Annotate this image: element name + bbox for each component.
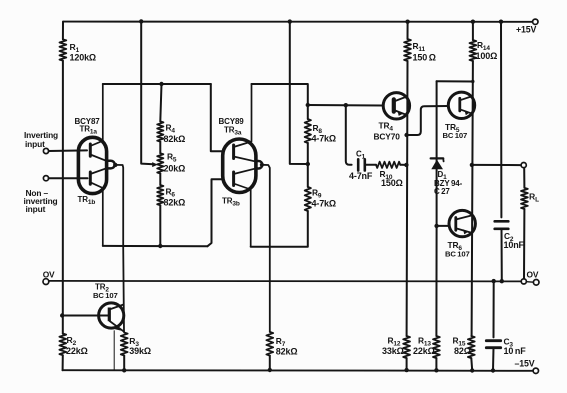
terminal 0V right B xyxy=(533,280,539,286)
wire R7 to rail xyxy=(269,356,271,370)
transistor TR3a base bar xyxy=(232,145,235,159)
label TR3b xyxy=(222,197,240,208)
label R2 xyxy=(67,335,77,347)
terminal non-inverting input xyxy=(43,176,48,181)
node R8 R9 junction xyxy=(306,162,310,166)
label R2 value xyxy=(66,346,88,356)
node R7 bottom xyxy=(268,368,272,372)
capacitor C2 xyxy=(495,221,509,229)
svg-text:BC 107: BC 107 xyxy=(93,291,118,300)
node R13 bottom xyxy=(434,368,438,372)
wire non-inverting input to TR1b base xyxy=(49,177,88,179)
wire R5-R6 xyxy=(159,174,161,186)
wire TR2 base xyxy=(62,315,107,317)
transistor TR5 collector xyxy=(460,96,473,100)
label R4 xyxy=(166,123,176,135)
svg-text:20kΩ: 20kΩ xyxy=(164,164,186,174)
transistor TR4 xyxy=(383,93,409,119)
terminal 0V left xyxy=(43,279,49,285)
svg-text:82kΩ: 82kΩ xyxy=(164,198,186,208)
transistor TR3b collector xyxy=(234,184,251,247)
wire RL bottom lead xyxy=(523,209,525,279)
transistor TR6 emitter xyxy=(456,228,472,233)
wire D1 vertical xyxy=(436,81,438,226)
label TR6 type xyxy=(445,250,470,259)
wire rail to C2 xyxy=(500,22,502,218)
svg-text:22kΩ: 22kΩ xyxy=(413,346,435,356)
label RL xyxy=(529,192,539,204)
wire TR1a collector rail xyxy=(103,83,211,85)
wire D1 to R13 xyxy=(435,226,437,336)
resistor R5 xyxy=(157,153,163,173)
diode D1 xyxy=(431,158,444,169)
label C3 xyxy=(504,337,514,349)
transistor TR1b emitter xyxy=(90,168,106,174)
wire R2 to -15V rail xyxy=(62,355,64,370)
resistor R7 xyxy=(266,332,273,356)
wire R10 to TR4 node xyxy=(400,164,406,166)
node TR3 emitter bump xyxy=(255,161,264,169)
node TR6 base junction xyxy=(434,224,438,228)
label R3 value xyxy=(129,346,151,356)
label TR6 xyxy=(448,240,463,252)
label TR2 type xyxy=(93,291,118,300)
transistor TR5 base bar xyxy=(458,98,461,111)
transistor TR4 emitter arrow xyxy=(398,111,403,116)
resistor R10 xyxy=(376,162,400,168)
node R12 bottom xyxy=(404,368,408,372)
label R7 value xyxy=(276,346,298,356)
wire 0V rail xyxy=(49,280,524,283)
node R10 TR4 junction xyxy=(404,163,408,167)
label TR5 xyxy=(445,122,460,134)
label R6 value xyxy=(164,198,186,208)
capacitor C1 xyxy=(358,159,365,170)
transistor TR2 collector xyxy=(109,305,123,310)
label BCY89 xyxy=(219,117,245,126)
node D1 top junction xyxy=(471,80,474,83)
wire RL top lead xyxy=(523,168,525,188)
resistor R6 xyxy=(157,185,163,205)
wire 0V right jumper xyxy=(526,281,533,284)
label C1 xyxy=(356,150,366,161)
wire C1 branch down xyxy=(346,105,352,165)
wire rail to R11 xyxy=(407,22,409,39)
label R10 value xyxy=(381,178,403,188)
label TR2 xyxy=(95,283,109,294)
transistor TR2 emitter xyxy=(110,321,124,332)
label R9 value xyxy=(312,199,336,209)
wire TR2 thin emitter line xyxy=(113,331,115,370)
svg-text:BC 107: BC 107 xyxy=(443,131,468,140)
resistor R1 xyxy=(60,39,67,60)
label -15V xyxy=(515,359,535,369)
transistor TR1b base bar xyxy=(89,172,92,184)
node rail x290 xyxy=(288,19,292,23)
wire up to TR3b base xyxy=(208,179,222,246)
resistor R11 xyxy=(404,39,411,61)
terminal RL top xyxy=(521,163,526,168)
label R15 value xyxy=(454,346,471,356)
transistor TR3a emitter xyxy=(234,157,256,162)
terminal inverting input xyxy=(43,148,48,153)
transistor TR6 base bar xyxy=(454,218,457,231)
node rail C2 xyxy=(499,20,503,24)
label R12 xyxy=(388,336,401,348)
transistor TR3 envelope xyxy=(223,139,256,193)
label R15 xyxy=(453,336,466,348)
wire R8 to junction xyxy=(307,143,309,187)
transistor TR6 collector xyxy=(456,216,472,220)
svg-text:82kΩ: 82kΩ xyxy=(276,346,298,356)
label R5 xyxy=(167,152,177,164)
label TR3a xyxy=(224,126,242,137)
label R9 xyxy=(312,188,322,200)
transistor TR3a collector xyxy=(234,84,252,147)
label TR5 type xyxy=(443,131,468,140)
transistor TR1a base bar xyxy=(89,144,92,156)
wire TR6 base xyxy=(437,225,449,227)
wire C1 to R10 xyxy=(365,164,376,166)
label R13 value xyxy=(413,346,435,356)
svg-text:–15V: –15V xyxy=(515,359,535,369)
wire R8 top lead xyxy=(307,105,309,119)
resistor R15 xyxy=(468,336,475,358)
wire C3 to -15V rail xyxy=(492,348,495,371)
transistor TR3b base bar xyxy=(232,172,235,186)
node C2 0V xyxy=(500,279,504,283)
label R5 value xyxy=(164,164,186,174)
node R6 bottom junction xyxy=(158,244,162,248)
resistor R8 xyxy=(305,119,311,143)
node C3 bottom xyxy=(491,368,495,372)
wire C2 to 0V xyxy=(501,229,503,281)
label inverting input xyxy=(24,130,58,149)
wire TR3 emitters down to R7 xyxy=(262,165,270,332)
resistor R12 xyxy=(403,336,410,358)
transistor TR4 base bar xyxy=(392,99,396,111)
wire TR4 base line xyxy=(308,104,383,107)
wire left vertical (R1 to R2) xyxy=(62,61,64,334)
wire 0V to C3 xyxy=(493,281,495,337)
wire rail to R8 R9 junction xyxy=(290,22,308,164)
node rail R11 xyxy=(405,20,409,24)
label C2 xyxy=(504,231,514,243)
wire TR1b collector to TR3b base line xyxy=(103,245,208,247)
transistor TR5 xyxy=(448,92,474,118)
label R10 xyxy=(380,169,393,181)
wire R14 to TR5 TR6 R15 xyxy=(472,61,473,336)
label +15V xyxy=(516,25,536,35)
svg-text:input: input xyxy=(26,204,46,214)
svg-text:100Ω: 100Ω xyxy=(476,51,498,61)
terminal +15V xyxy=(533,19,538,24)
label D1 type1 xyxy=(434,179,463,188)
node TR4 out junction xyxy=(404,133,408,137)
wire +15V top rail xyxy=(63,21,535,23)
resistor R13 xyxy=(433,336,440,358)
label TR1a xyxy=(80,125,98,136)
transistor TR1b collector xyxy=(90,182,103,246)
label non-inverting input xyxy=(24,188,58,214)
wire R13 to rail xyxy=(435,358,437,370)
svg-text:input: input xyxy=(25,139,45,149)
svg-text:4-7kΩ: 4-7kΩ xyxy=(312,199,336,209)
label R4 value xyxy=(164,134,186,144)
label R8 value xyxy=(312,134,336,144)
wire R12 to rail xyxy=(406,358,408,370)
svg-text:10nF: 10nF xyxy=(504,240,525,250)
transistor TR4 collector xyxy=(394,97,407,102)
resistor R14 xyxy=(470,40,477,61)
node R4 top junction xyxy=(159,82,163,86)
wire TR3a collector to R8 top xyxy=(252,84,308,105)
node TR1 emitter bump xyxy=(106,161,117,169)
wire to TR3a base xyxy=(211,84,222,151)
wire R4 top lead xyxy=(160,84,161,121)
wire R6 bottom lead xyxy=(159,205,161,246)
transistor TR1a emitter xyxy=(90,155,106,161)
node C3 0V xyxy=(492,279,496,283)
label 0V right xyxy=(527,270,539,280)
resistor R9 xyxy=(305,187,311,211)
svg-text:39kΩ: 39kΩ xyxy=(129,346,151,356)
node output junction xyxy=(470,163,474,167)
label D1 xyxy=(438,170,448,181)
svg-text:22kΩ: 22kΩ xyxy=(66,346,88,356)
resistor R2 xyxy=(59,334,66,356)
node rail x141 xyxy=(139,19,143,23)
svg-text:150 Ω: 150 Ω xyxy=(413,53,436,63)
node TR2 base tap xyxy=(60,313,64,317)
label R6 xyxy=(166,187,176,199)
label TR1b xyxy=(78,195,96,206)
label R1 xyxy=(70,42,80,54)
node R3 bottom xyxy=(122,368,126,372)
node C1 branch junction xyxy=(344,103,348,107)
wire TR1 emitters to TR2 collector xyxy=(116,165,124,332)
transistor TR5 emitter arrow xyxy=(465,110,470,115)
label R3 xyxy=(129,336,139,348)
wire TR4 to TR5 base xyxy=(407,106,449,135)
label R1 value xyxy=(70,53,97,63)
svg-text:OV: OV xyxy=(527,270,539,280)
wire left vertical top (rail to R1) xyxy=(62,22,64,40)
label R7 xyxy=(276,336,286,348)
svg-text:BC 107: BC 107 xyxy=(445,250,470,259)
node R8 top junction xyxy=(306,103,310,107)
label R12 value xyxy=(382,346,404,356)
svg-text:10 nF: 10 nF xyxy=(504,346,527,356)
label C1 value xyxy=(349,171,373,181)
svg-text:82kΩ: 82kΩ xyxy=(164,134,186,144)
transistor TR5 emitter xyxy=(460,109,473,114)
svg-text:4-7kΩ: 4-7kΩ xyxy=(312,134,336,144)
label C3 value xyxy=(504,346,527,356)
terminal 0V right A xyxy=(521,279,526,284)
label R14 xyxy=(477,40,490,52)
wire rail to R14 xyxy=(472,22,474,40)
transistor TR3b emitter xyxy=(234,168,256,174)
label 0V left xyxy=(43,269,55,279)
wire R4-R5 xyxy=(159,142,161,154)
node rail R14 xyxy=(471,20,475,24)
wire D1 top xyxy=(437,80,473,82)
wire inverting input to TR1a base xyxy=(49,149,87,152)
label BCY87 xyxy=(75,117,101,126)
label TR4 xyxy=(379,121,394,133)
wire R9 bottom to TR3b collector xyxy=(251,211,308,247)
wire R11 to TR4/R12 vertical xyxy=(406,61,409,336)
wire -15V bottom rail xyxy=(63,369,536,372)
svg-text:BCY70: BCY70 xyxy=(374,132,401,142)
node R15 bottom xyxy=(470,368,474,372)
capacitor C3 xyxy=(486,341,500,348)
transistor TR6 xyxy=(449,210,475,236)
transistor TR2 xyxy=(99,303,124,328)
wire R15 to rail xyxy=(470,358,473,370)
wire rail to R5 tap xyxy=(141,22,158,168)
transistor TR1a collector xyxy=(90,84,103,146)
transistor TR6 emitter arrow xyxy=(463,229,468,234)
label R11 value xyxy=(413,53,436,63)
svg-text:82Ω: 82Ω xyxy=(454,346,471,356)
resistor RL xyxy=(521,188,528,209)
label D1 type2 xyxy=(434,187,450,196)
svg-text:33kΩ: 33kΩ xyxy=(382,346,404,356)
resistor R3 xyxy=(121,333,128,356)
label R11 xyxy=(413,41,426,53)
label C2 value xyxy=(504,240,525,250)
label R13 xyxy=(418,336,431,348)
wire R3 to -15V rail xyxy=(123,356,125,371)
svg-text:+15V: +15V xyxy=(516,25,536,35)
resistor R4 xyxy=(157,121,163,141)
terminal -15V xyxy=(533,368,538,373)
svg-text:C 27: C 27 xyxy=(434,187,450,196)
transistor TR4 emitter xyxy=(394,110,407,115)
svg-text:150Ω: 150Ω xyxy=(381,178,403,188)
transistor TR2 emitter arrow xyxy=(115,325,121,330)
svg-text:4-7nF: 4-7nF xyxy=(349,171,373,181)
svg-text:120kΩ: 120kΩ xyxy=(70,53,97,63)
label R14 value xyxy=(476,51,498,61)
wire output to RL terminal xyxy=(472,164,521,166)
svg-text:OV: OV xyxy=(43,269,55,279)
transistor TR1 envelope xyxy=(78,137,106,193)
label TR4 type xyxy=(374,132,401,142)
label R8 xyxy=(313,123,323,135)
